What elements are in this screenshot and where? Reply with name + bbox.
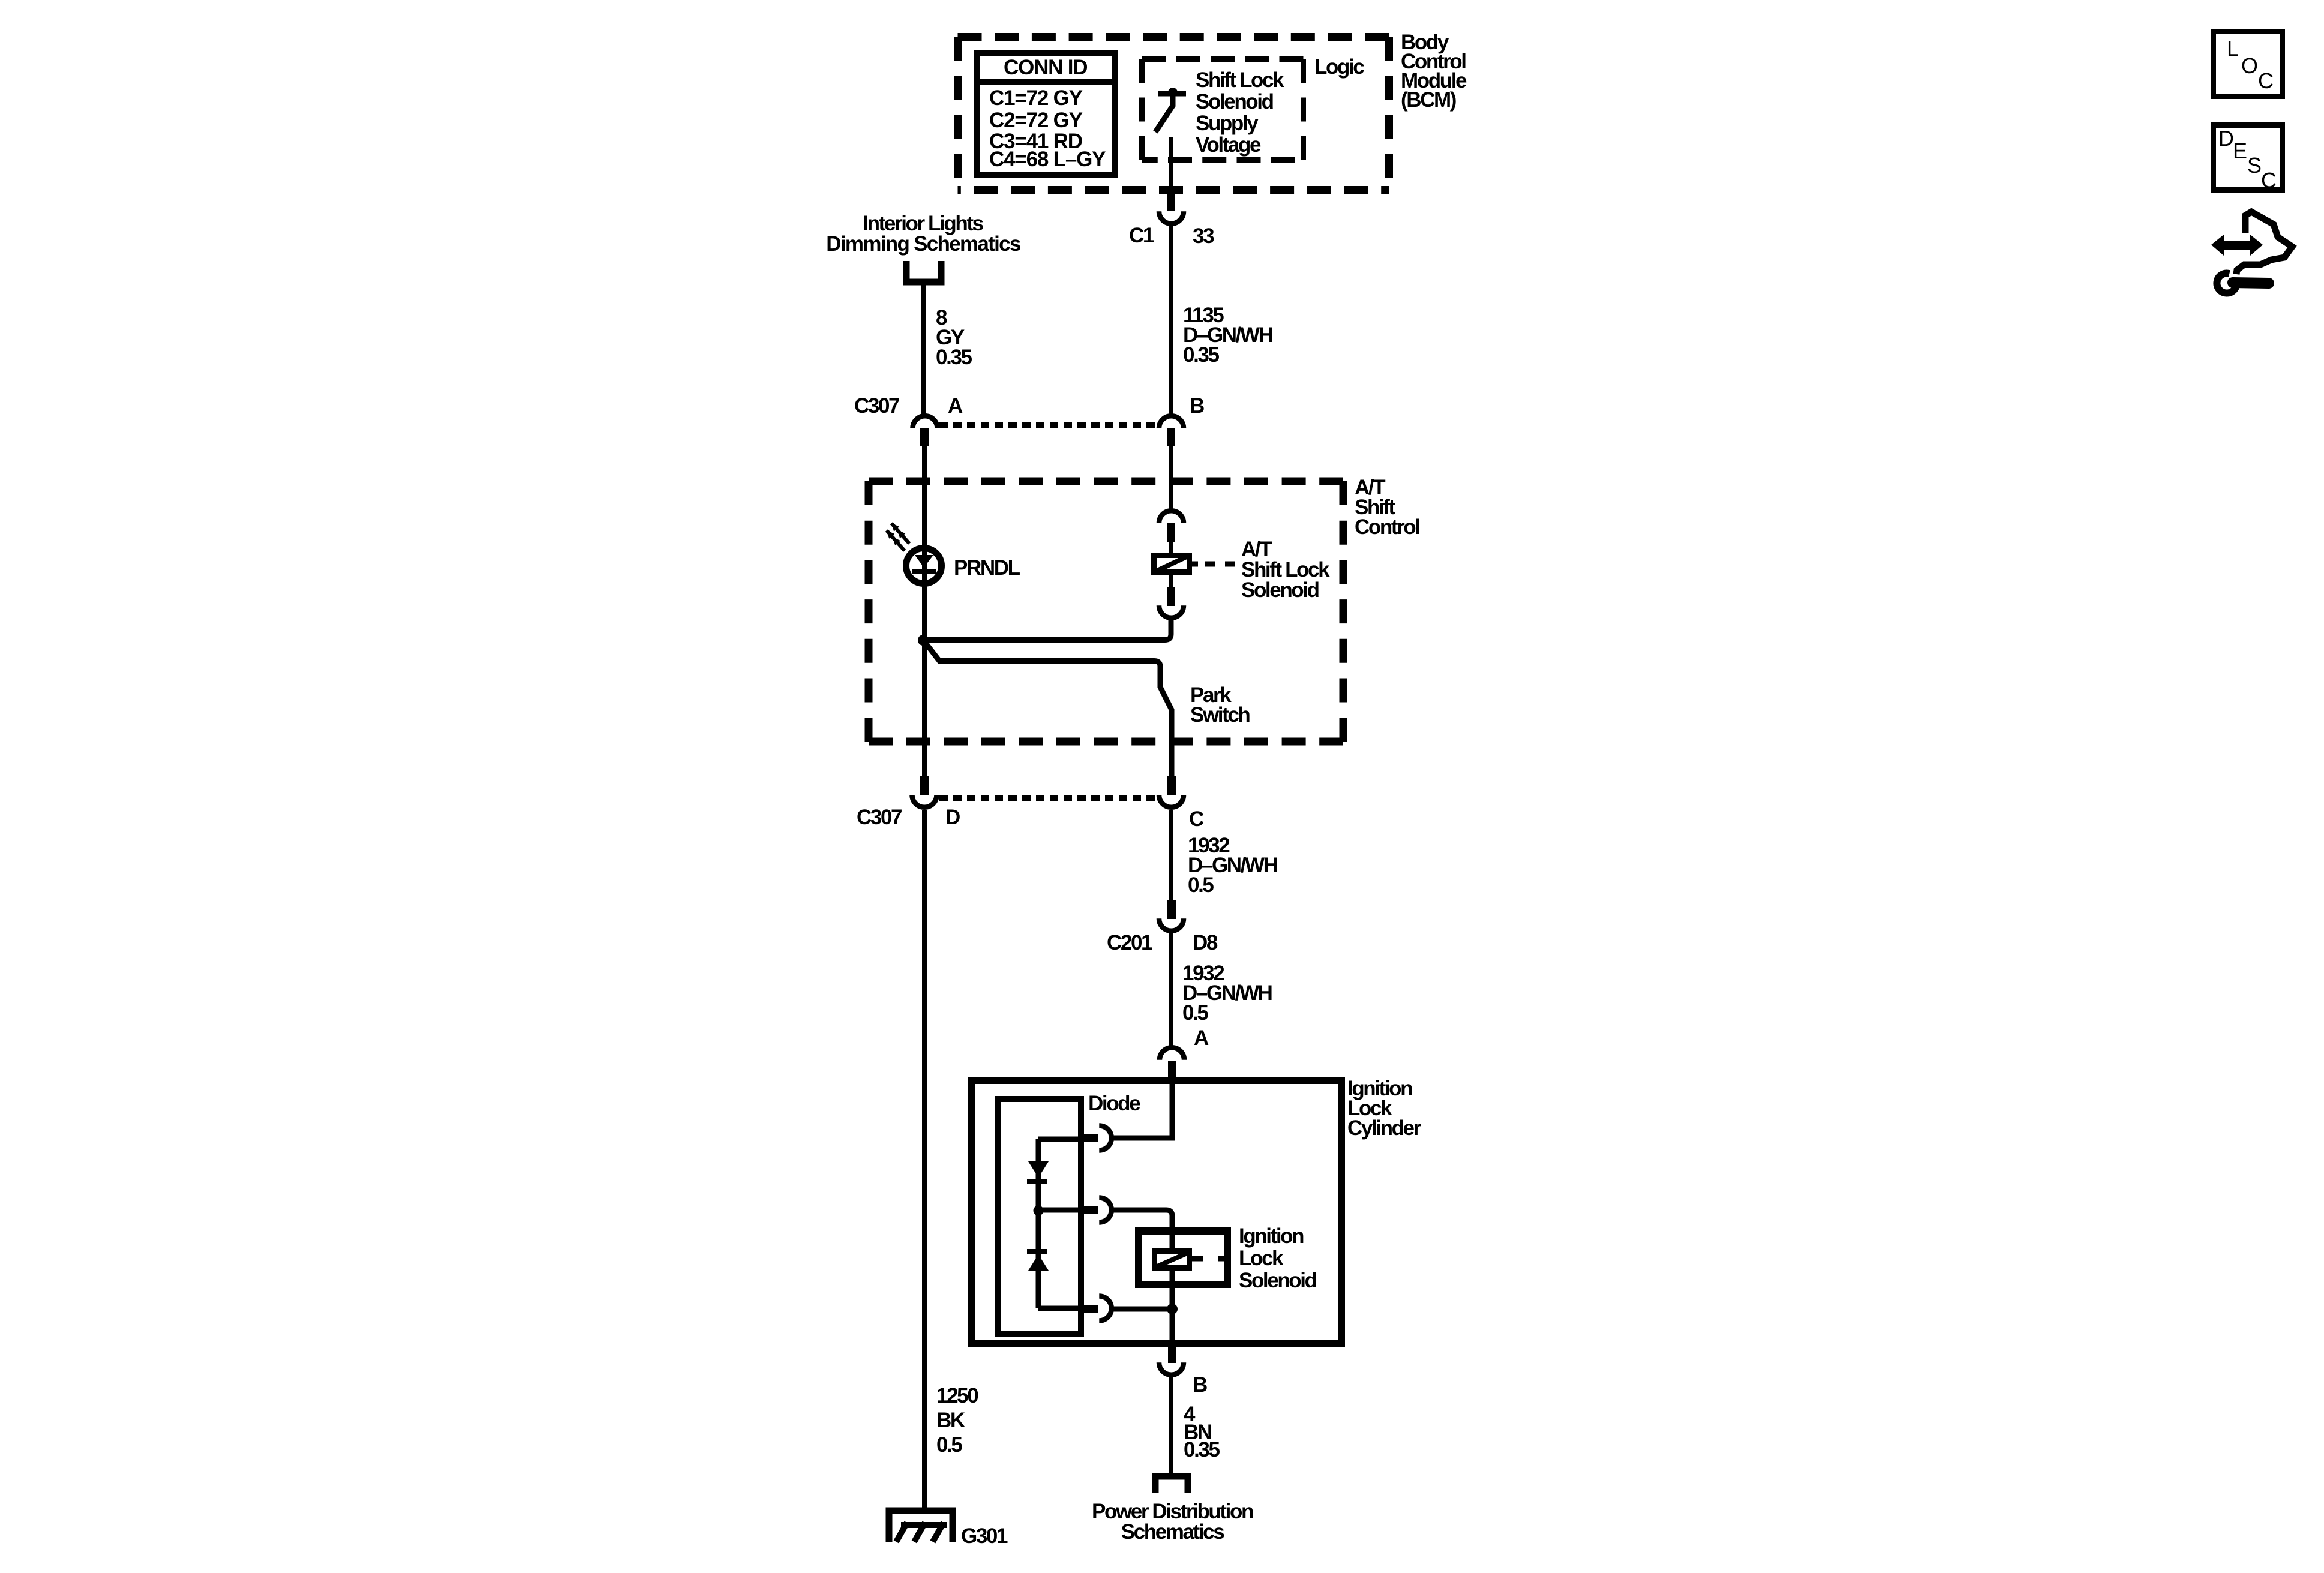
svg-text:Control: Control: [1355, 515, 1419, 539]
svg-text:L: L: [2227, 36, 2239, 61]
svg-text:C307: C307: [857, 806, 902, 829]
ground G301: [889, 1511, 1008, 1548]
svg-text:C1: C1: [1129, 224, 1154, 247]
svg-text:CONN ID: CONN ID: [1004, 56, 1087, 79]
wire B to A/T box: [1169, 446, 1173, 509]
svg-text:Shift Lock: Shift Lock: [1196, 68, 1284, 92]
park switch wire and blade: [926, 644, 1172, 776]
svg-text:0.5: 0.5: [936, 1433, 962, 1457]
svg-text:Lock: Lock: [1239, 1247, 1284, 1270]
wire 1135 D-GN/WH 0.35: [1171, 224, 1272, 415]
diode chain junction node: [1034, 1206, 1044, 1216]
connector C307 terminal C: [1159, 776, 1204, 831]
BCM label: [1401, 31, 1467, 112]
junction node below solenoid: [1167, 1304, 1178, 1314]
svg-text:C1=72 GY: C1=72 GY: [989, 86, 1083, 110]
wire row3 to junction below solenoid: [1113, 1307, 1172, 1312]
svg-text:C201: C201: [1107, 931, 1152, 954]
svg-text:Ignition: Ignition: [1239, 1224, 1304, 1248]
Body Control Module (BCM) dashed box: [958, 37, 1389, 190]
Logic label: [1314, 55, 1364, 79]
A/T Shift Lock Solenoid label: [1241, 538, 1330, 602]
svg-text:E: E: [2233, 139, 2247, 163]
switch (BCM internal driver): [1155, 88, 1186, 132]
diode D1 (down): [1027, 1161, 1049, 1184]
Park Switch label: [1190, 683, 1250, 727]
svg-text:B: B: [1193, 1373, 1207, 1397]
adjustable component icon double arrow: [2211, 235, 2263, 256]
diode pack connector row 1: [1081, 1126, 1112, 1151]
Power Distribution off-page reference: [1092, 1476, 1253, 1544]
Ignition Lock Solenoid label: [1239, 1224, 1317, 1292]
Interior Lights Dimming Schematics off-page reference: [826, 212, 1021, 282]
svg-text:Schematics: Schematics: [1121, 1520, 1224, 1544]
wire row1 to terminal A: [1113, 1083, 1172, 1138]
svg-text:0.5: 0.5: [1182, 1001, 1208, 1025]
Ignition Lock Cylinder box: [972, 1080, 1341, 1344]
connector ignition lock cylinder terminal B: [1159, 1345, 1207, 1397]
diode D2 (up): [1027, 1249, 1049, 1271]
svg-text:C4=68 L–GY: C4=68 L–GY: [989, 148, 1106, 171]
svg-text:Solenoid: Solenoid: [1239, 1269, 1317, 1292]
svg-text:C307: C307: [854, 394, 899, 418]
wire 1932 D-GN/WH 0.5 upper: [1171, 810, 1277, 900]
LOC icon box: [2214, 32, 2283, 97]
Logic dashed box: [1142, 59, 1304, 160]
svg-text:1250: 1250: [936, 1384, 978, 1407]
CONN ID table: [974, 53, 1118, 175]
A/T Shift Control dashed box: [869, 481, 1343, 742]
connector at A/T shift lock solenoid top: [1159, 511, 1184, 553]
DESC icon box: [2214, 125, 2283, 193]
Diode pack box: [998, 1099, 1081, 1334]
svg-text:Solenoid: Solenoid: [1241, 578, 1319, 602]
svg-text:Diode: Diode: [1088, 1092, 1140, 1115]
Ignition Lock Cylinder label: [1347, 1077, 1422, 1140]
wire 4 BN 0.35: [1171, 1377, 1220, 1474]
C307 bulkhead dashed line A-B: [939, 422, 1158, 428]
connector C1 pin 33: [1129, 194, 1214, 248]
svg-text:0.35: 0.35: [1184, 1438, 1220, 1461]
svg-text:A: A: [1194, 1026, 1209, 1050]
Diode label: [1088, 1092, 1140, 1115]
svg-text:33: 33: [1193, 224, 1214, 248]
svg-text:D: D: [945, 806, 960, 829]
svg-text:C2=72 GY: C2=72 GY: [989, 109, 1083, 132]
ignition lock solenoid coil: [1155, 1235, 1226, 1304]
svg-text:Solenoid: Solenoid: [1196, 90, 1274, 113]
A/T Shift Control label: [1355, 476, 1419, 539]
dashed link to solenoid label: [1205, 562, 1235, 567]
diode pack connector row 2: [1081, 1198, 1112, 1223]
svg-text:PRNDL: PRNDL: [954, 556, 1020, 580]
adjustable component icon outline: [2236, 212, 2292, 274]
adjustable component icon wrench: [2217, 274, 2269, 293]
wire solenoid bottom to junction: [923, 620, 1171, 640]
svg-text:C: C: [2258, 68, 2274, 93]
svg-text:S: S: [2247, 153, 2262, 178]
wire 8 GY 0.35: [924, 285, 972, 415]
svg-text:C: C: [1189, 807, 1204, 831]
diode pack connector row 3: [1081, 1296, 1112, 1321]
shift lock solenoid supply voltage label: [1196, 68, 1284, 157]
wire junction to terminal B: [1170, 1314, 1175, 1347]
connector ignition lock cylinder terminal A: [1160, 1047, 1184, 1082]
svg-text:Logic: Logic: [1314, 55, 1364, 79]
A/T shift lock solenoid coil: [1154, 556, 1199, 572]
svg-text:D: D: [2218, 126, 2234, 151]
wire 1250 BK 0.5 (ground wire): [924, 810, 978, 1511]
svg-text:Dimming Schematics: Dimming Schematics: [826, 232, 1021, 256]
diode chain vertical wire: [1038, 1139, 1081, 1308]
connector C201 terminal D8: [1107, 900, 1218, 954]
PRNDL LED light arrows: [887, 523, 909, 551]
wire A to A/T box: [922, 446, 927, 776]
svg-text:BK: BK: [936, 1409, 965, 1432]
C307 bulkhead dashed line D-C: [939, 795, 1158, 801]
wire 1932 D-GN/WH 0.5 lower: [1171, 933, 1272, 1050]
connector C307 terminal B: [1159, 394, 1204, 446]
wire row2 to ignition lock solenoid: [1113, 1210, 1172, 1231]
svg-text:0.35: 0.35: [1183, 343, 1219, 367]
svg-text:G301: G301: [961, 1524, 1008, 1548]
svg-text:(BCM): (BCM): [1401, 88, 1456, 112]
svg-text:Supply: Supply: [1196, 112, 1259, 135]
connector C307 terminal A: [854, 394, 963, 446]
svg-text:0.5: 0.5: [1188, 873, 1214, 897]
wire from switch to C1 pin 33: [1169, 137, 1173, 198]
connector C307 terminal D: [857, 776, 960, 829]
junction node: [918, 635, 929, 646]
svg-text:D8: D8: [1193, 931, 1218, 954]
svg-text:C: C: [2261, 168, 2277, 193]
svg-text:B: B: [1190, 394, 1204, 418]
Ignition Lock Solenoid box: [1139, 1231, 1227, 1284]
svg-text:O: O: [2241, 53, 2258, 78]
svg-text:Switch: Switch: [1190, 703, 1250, 727]
svg-text:0.35: 0.35: [936, 346, 972, 369]
PRNDL LED: [906, 548, 1020, 584]
svg-text:Voltage: Voltage: [1196, 133, 1261, 157]
connector at A/T shift lock solenoid bottom: [1159, 575, 1184, 618]
svg-text:A: A: [948, 394, 963, 418]
svg-text:Cylinder: Cylinder: [1347, 1116, 1422, 1140]
